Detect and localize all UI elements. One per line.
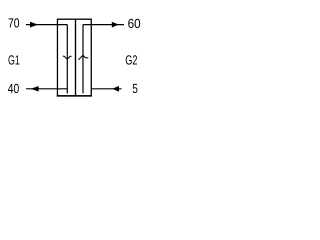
down flow chevron in left chamber bbox=[63, 56, 72, 59]
right chamber conductor (5 to 60) bbox=[82, 25, 84, 94]
solid arrowhead pointing left on wire 5 bbox=[112, 86, 119, 92]
solid arrowhead pointing left on wire 40 bbox=[31, 86, 39, 92]
wire: left conductor to terminal 40 bbox=[26, 88, 67, 90]
svg-text:60: 60 bbox=[128, 16, 141, 31]
svg-text:40: 40 bbox=[8, 81, 19, 96]
wire: right conductor to terminal 60 bbox=[83, 24, 124, 26]
bottom edge emphasis of body bbox=[57, 95, 92, 97]
left chamber conductor (70 to 40) bbox=[66, 25, 68, 94]
up flow chevron in right chamber bbox=[78, 55, 88, 60]
svg-text:G1: G1 bbox=[8, 53, 20, 68]
chamber divider wall bbox=[75, 19, 77, 96]
wire: terminal 5 to right conductor bbox=[91, 88, 121, 90]
svg-text:70: 70 bbox=[8, 16, 20, 31]
component U1 outline: dual-chamber body bbox=[57, 19, 91, 96]
solid arrowhead pointing right on wire 70 bbox=[30, 22, 38, 28]
svg-text:5: 5 bbox=[132, 81, 138, 96]
background bbox=[0, 0, 150, 109]
svg-text:G2: G2 bbox=[125, 53, 137, 68]
solid arrowhead pointing right on wire 60 bbox=[112, 22, 119, 28]
wire: terminal 70 to left conductor bbox=[26, 24, 67, 26]
